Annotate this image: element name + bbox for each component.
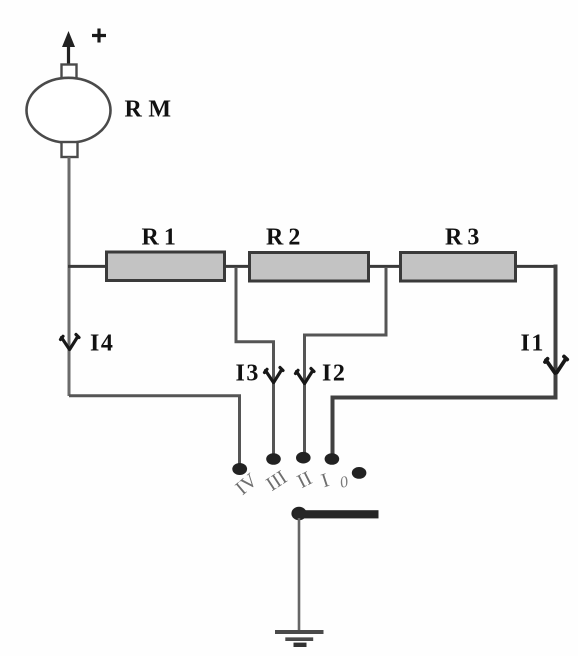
- svg-text:I2: I2: [322, 361, 346, 387]
- wire bus to R1: [68, 265, 106, 268]
- switch contact II: [296, 452, 311, 464]
- switch contact I: [325, 453, 340, 465]
- svg-text:II: II: [294, 467, 316, 493]
- wire branch I1: [333, 265, 556, 457]
- terminal square bottom of RM: [62, 142, 78, 157]
- svg-text:R1: R1: [142, 225, 181, 251]
- svg-text:III: III: [262, 466, 291, 495]
- resistor R1: [107, 252, 225, 281]
- switch contact IV: [232, 463, 247, 475]
- svg-text:I: I: [319, 469, 332, 492]
- arrowhead on I3 wire: [265, 368, 284, 383]
- wire branch I3: [236, 267, 274, 454]
- switch arm: [294, 510, 379, 518]
- svg-text:RM: RM: [125, 97, 178, 123]
- resistor R3: [401, 253, 516, 282]
- switch pivot: [291, 507, 306, 521]
- label +: [92, 29, 106, 43]
- switch contact 0: [352, 467, 367, 479]
- wire R2 to R3: [368, 265, 401, 268]
- svg-text:I1: I1: [521, 331, 545, 357]
- svg-text:I4: I4: [90, 331, 114, 357]
- svg-text:R3: R3: [445, 225, 484, 251]
- terminal square top of RM: [62, 65, 77, 79]
- wire R1 to R2: [224, 265, 250, 268]
- arrowhead on I2 wire: [296, 369, 315, 384]
- switch contact III: [266, 453, 281, 465]
- wire branch I2: [305, 267, 387, 453]
- positive terminal arrow: [62, 31, 75, 64]
- wire from pivot to ground: [298, 518, 301, 631]
- svg-text:0: 0: [338, 473, 349, 491]
- svg-text:I3: I3: [236, 361, 260, 387]
- svg-text:R2: R2: [266, 225, 305, 251]
- arrowhead on I1 wire: [545, 357, 567, 374]
- ground: [275, 632, 324, 645]
- wire branch I4 lower run: [69, 396, 240, 464]
- wire from RM down the left side: [68, 157, 71, 396]
- wire R3 to right branch: [515, 265, 557, 268]
- galvanometer RM body: [27, 78, 111, 143]
- resistor R2: [250, 253, 369, 282]
- arrowhead on I4 wire: [61, 335, 80, 350]
